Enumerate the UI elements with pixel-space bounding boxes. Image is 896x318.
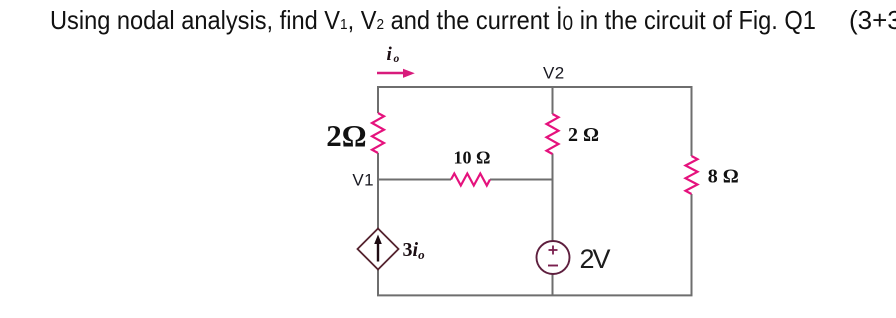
resistor 8ohm right (zigzag) [686,156,698,194]
svg-text:V2: V2 [543,64,565,83]
svg-text:2 Ω: 2 Ω [568,124,599,146]
wire: middle vertical from 2ohm resistor to 2V source [552,154,554,242]
dependent current source 3io (diamond) [358,229,399,270]
wire: middle vertical from top to 2ohm resistor [552,87,554,114]
svg-text:8 Ω: 8 Ω [708,166,739,188]
svg-text:i: i [387,44,393,65]
svg-text:o: o [394,53,400,65]
svg-text:3io: 3io [403,239,426,262]
plus sign [549,249,558,251]
wire: left vertical below 2ohm resistor to V1 node [377,153,379,229]
svg-text:2Ω: 2Ω [326,118,366,153]
title text [50,7,816,34]
resistor 2ohm left (zigzag) [372,113,384,153]
resistor 2ohm middle (zigzag) [547,114,559,154]
wire: V1 horizontal from left branch to 10ohm resistor [378,179,451,181]
resistor 10ohm horizontal (zigzag) [451,174,490,186]
wire: right vertical below 8ohm resistor [691,194,693,296]
wire: left vertical below diamond source to bottom [377,270,379,297]
voltage source 2V (circle) [537,241,570,274]
svg-text:V1: V1 [352,171,374,190]
wire: top horizontal from node V1 branch to right branch [378,87,692,156]
marks text (3+3) cut at right edge [849,7,896,33]
current arrow io [377,72,404,74]
svg-text:10 Ω: 10 Ω [454,148,491,168]
wire: V1 horizontal from 10ohm resistor to middle branch [490,179,553,181]
arrow inside diamond [377,240,379,262]
wire: middle vertical from 2V source to bottom [552,274,554,296]
svg-text:2V: 2V [580,244,611,274]
minus sign [548,265,558,267]
wire: bottom horizontal [377,294,693,296]
